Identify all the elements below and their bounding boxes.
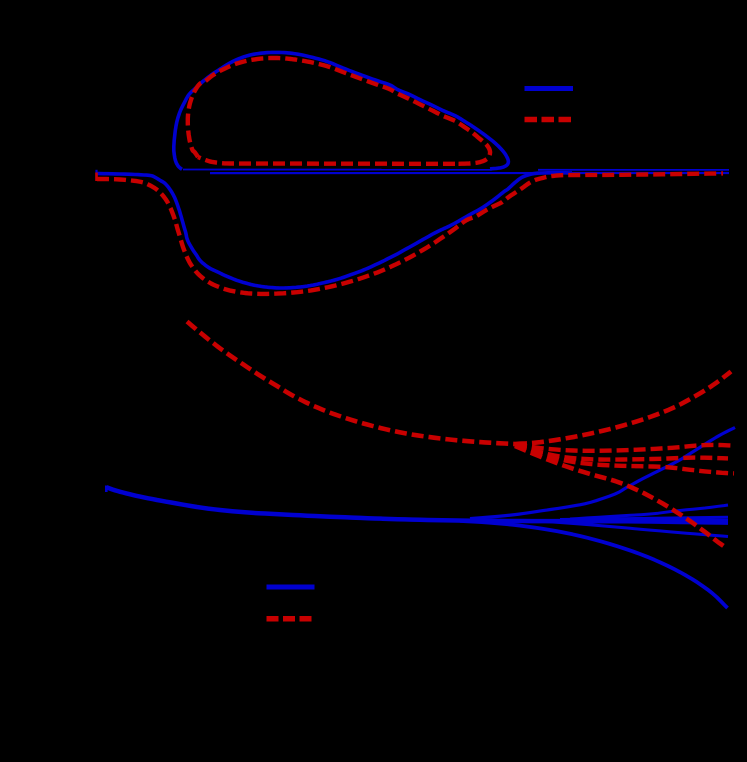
top plot: blue pressure-side start tick [95,170,97,178]
bottom legend: blue solid sample [267,585,315,590]
top plot: red dashed pressure-side curve [97,173,723,294]
bottom plot: blue flat branch [560,517,728,519]
bottom plot: red flat branch [515,444,734,451]
bottom plot: red second flat branch [515,445,728,460]
top plot: red dashed loop bottom line [198,157,455,164]
top plot: blue pressure-side curve [97,173,572,288]
top plot: red dashed suction-side loop curve [188,58,490,164]
bottom plot: red dashed main curve [187,322,515,445]
top plot: blue loop bottom line [183,169,492,171]
bottom plot: red gently-declining branch [515,445,734,473]
top legend: blue solid sample [525,86,574,91]
top plot: red pressure-side start tick [95,173,98,182]
bottom plot: blue rising branch [470,428,735,519]
top legend: red dashed sample [525,117,572,123]
bottom legend: red dashed sample [267,616,313,622]
bottom plot: blue slightly-declining branch [560,521,728,523]
top plot: blue suction-side loop curve [174,52,509,169]
bottom plot: blue main curve [107,487,729,521]
bottom plot: blue declining branch [545,522,728,537]
bottom plot: red steep descending branch [515,446,728,549]
bottom plot: blue start tick [105,486,108,493]
bottom plot: blue steep descending branch [460,521,728,608]
top plot: blue lower horizontal line [210,172,729,174]
top plot: blue upper horizontal line right segment [538,169,729,171]
bottom plot: blue gently-rising branch [570,505,728,519]
bottom plot: red rising branch [515,372,731,445]
